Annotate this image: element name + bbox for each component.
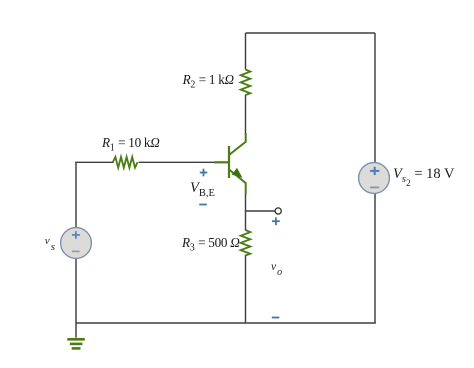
node VBE plus: [200, 169, 208, 177]
wire output lead: [246, 210, 275, 212]
resistor R2: [241, 70, 251, 96]
wire base right lead: [139, 161, 216, 163]
wire base left lead: [75, 161, 113, 163]
label vo: [271, 261, 282, 273]
transistor Q1 collector: [229, 133, 246, 155]
wire top: [246, 32, 376, 34]
node vo minus: [272, 317, 280, 319]
wire left upper: [75, 162, 77, 228]
node output terminal: [275, 208, 281, 214]
transistor Q1 emitter: [229, 170, 246, 195]
source vs minus: [72, 250, 80, 252]
label R1 value: [102, 135, 160, 154]
wire collector lead: [245, 95, 247, 135]
wire left lower: [75, 258, 77, 337]
wire right upper: [374, 33, 376, 163]
label VBE: [190, 180, 215, 199]
source Vs2 circle: [359, 163, 390, 194]
source Vs2 plus: [370, 167, 379, 175]
resistor R3: [241, 230, 251, 256]
wire right lower: [374, 193, 376, 323]
wire bottom: [76, 322, 376, 324]
transistor Q1 emitter arrow: [233, 169, 242, 177]
source Vs2 minus: [370, 186, 379, 188]
label vs: [45, 235, 55, 247]
label Vs2 value: [393, 166, 454, 185]
wire R2 top lead: [245, 33, 247, 70]
source vs circle: [61, 228, 92, 259]
label R3 value: [182, 235, 240, 254]
transistor Q1 base bar: [228, 146, 230, 178]
transistor Q1 base lead: [214, 161, 229, 163]
resistor R1: [113, 157, 138, 168]
node vo plus: [272, 217, 280, 225]
wire emitter lead: [245, 194, 247, 231]
node VBE minus: [199, 204, 207, 206]
ground: [67, 339, 85, 348]
wire R3 bottom lead: [245, 255, 247, 324]
label R2 value: [183, 72, 234, 91]
source vs plus: [72, 231, 80, 239]
